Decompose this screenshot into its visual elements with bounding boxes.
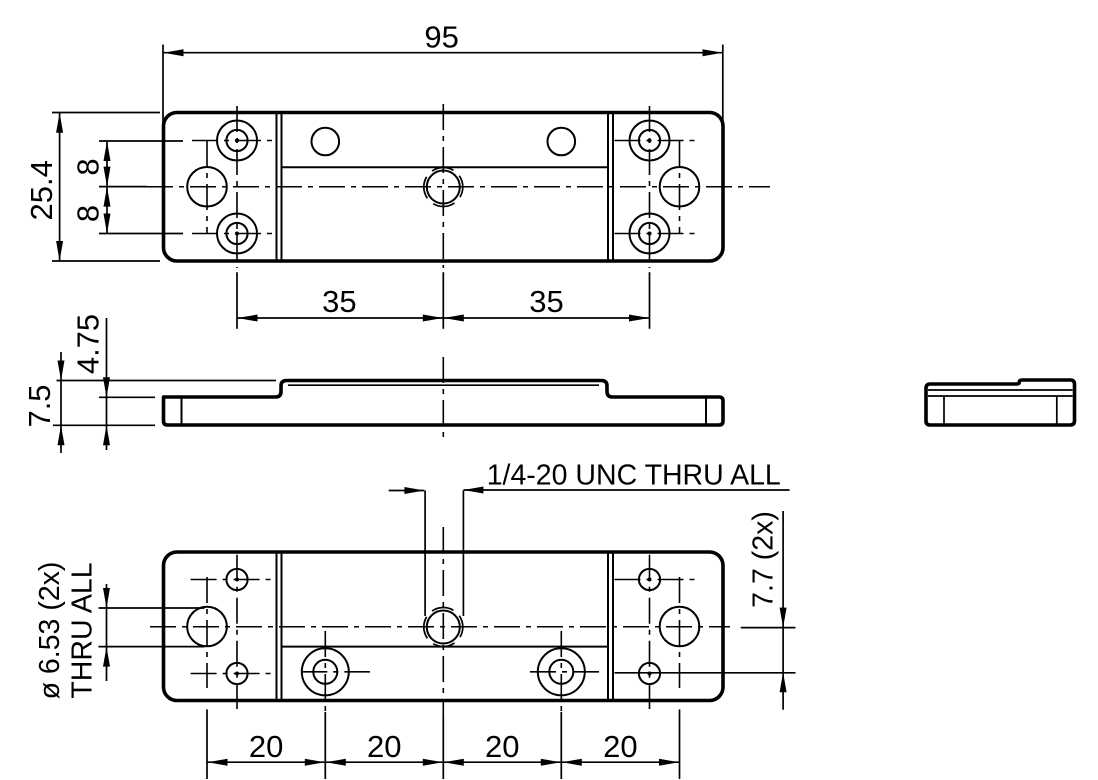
dimension 4.75 (71, 314, 156, 450)
side view boss tangent line (288, 384, 599, 386)
corner hole bottom-right bottom view (639, 663, 660, 684)
svg-text:ø 6.53 (2x): ø 6.53 (2x) (34, 562, 66, 700)
counterbored hole left bottom view (302, 648, 349, 695)
svg-text:7.5: 7.5 (22, 384, 57, 427)
svg-text:7.7 (2x): 7.7 (2x) (748, 511, 780, 608)
dimension 95 (163, 19, 723, 124)
boss edge double line right bottom view (608, 554, 613, 700)
end view left tab line (943, 397, 945, 424)
column centerline large hole left bottom view (206, 577, 208, 688)
svg-text:25.4: 25.4 (24, 160, 59, 220)
end view plate top line (928, 395, 1073, 397)
counterbored hole bottom-left (217, 214, 257, 254)
column centerline x649.5 (649, 106, 651, 268)
center tapped hole (424, 168, 463, 207)
column centerline x237 bottom view (236, 555, 238, 709)
top view plate outline (164, 113, 724, 262)
large hole left bottom view (187, 607, 227, 647)
counterbored hole top-left (217, 121, 257, 161)
column centerline counterbore right (560, 631, 562, 712)
column centerline center hole bottom view (442, 527, 444, 716)
svg-text:35: 35 (529, 284, 563, 319)
large hole right bottom view (660, 607, 700, 647)
counterbored hole bottom-right (630, 214, 670, 254)
svg-text:20: 20 (249, 729, 283, 764)
row centerline upper right (615, 140, 701, 142)
svg-text:8: 8 (71, 158, 106, 175)
column centerline counterbore left (324, 631, 326, 712)
side view left tab line (181, 399, 183, 424)
column centerline large hole left (206, 141, 208, 233)
counterbored hole right bottom view (538, 648, 585, 695)
svg-text:THRU ALL: THRU ALL (67, 562, 99, 698)
bottom view plate outline (164, 552, 724, 701)
column centerline x237 (236, 106, 238, 268)
center tapped hole bottom view (424, 608, 463, 647)
column centerline large hole right (679, 141, 681, 233)
note 1/4-20 UNC THRU ALL (389, 459, 790, 616)
counterbore row centerline right (530, 671, 600, 673)
svg-text:1/4-20 UNC THRU ALL: 1/4-20 UNC THRU ALL (487, 459, 781, 491)
boss edge double line right (608, 114, 613, 260)
end view right tab line (1056, 397, 1058, 424)
svg-text:35: 35 (322, 284, 356, 319)
dimension 7.5 (22, 352, 276, 453)
end view outline (926, 380, 1075, 425)
row centerline lower left (192, 233, 273, 235)
dimension 8 lower (71, 187, 184, 234)
svg-text:8: 8 (71, 205, 106, 222)
main horizontal centerline bottom view (150, 626, 730, 628)
boss edge double line left bottom view (277, 554, 282, 700)
corner hole top-left bottom view (226, 569, 247, 590)
side view right tab line (705, 399, 707, 424)
row centerline lower right (615, 233, 701, 235)
dimension 25.4 (24, 113, 160, 262)
corner hole bottom-left bottom view (226, 663, 247, 684)
row centerline lower left bottom view (191, 673, 273, 675)
large hole right (660, 167, 700, 207)
dimension 20 chain (207, 709, 680, 779)
dimension 7.7 (2x) (741, 511, 796, 710)
row centerline lower right bottom view (615, 672, 796, 674)
large hole left (187, 167, 227, 207)
svg-text:95: 95 (424, 19, 458, 54)
counterbored hole top-right (630, 121, 670, 161)
small hole right (548, 128, 576, 156)
side view profile (164, 381, 724, 426)
dimension 35 left (237, 272, 443, 329)
boss step edge line (282, 166, 609, 168)
row centerline upper left (192, 140, 273, 142)
side view centerline (442, 357, 444, 437)
note dia 6.53 (2x) THRU ALL (34, 562, 205, 700)
small hole left (312, 128, 340, 156)
row centerline upper right bottom view (615, 579, 698, 581)
svg-text:20: 20 (485, 729, 519, 764)
column centerline x649.5 bottom view (649, 555, 651, 709)
column centerline center hole top view (442, 104, 444, 268)
svg-text:20: 20 (603, 729, 637, 764)
counterbore row centerline left (301, 671, 370, 673)
row centerline upper left bottom view (191, 579, 273, 581)
corner hole top-right bottom view (639, 569, 660, 590)
svg-text:4.75: 4.75 (71, 314, 106, 374)
dimension 8 upper (71, 141, 184, 234)
dimension 35 right (443, 272, 649, 329)
main horizontal centerline top view (147, 186, 770, 188)
end view upper tangent line (928, 389, 1073, 391)
svg-text:20: 20 (367, 729, 401, 764)
column centerline large hole right bottom view (679, 577, 681, 688)
boss step edge line bottom view (282, 646, 609, 648)
boss edge double line left (277, 114, 282, 260)
